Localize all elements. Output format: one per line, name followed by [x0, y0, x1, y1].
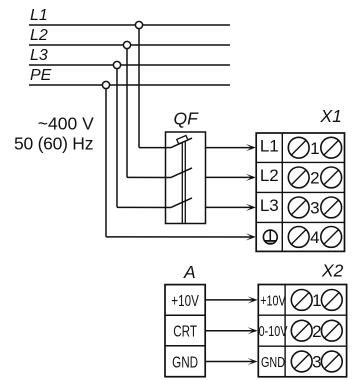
- svg-text:L1: L1: [260, 136, 279, 155]
- svg-text:50 (60) Hz: 50 (60) Hz: [14, 134, 93, 154]
- svg-text:PE: PE: [30, 67, 52, 84]
- svg-text:1: 1: [312, 291, 321, 310]
- svg-text:L2: L2: [260, 166, 279, 185]
- svg-text:4: 4: [310, 228, 319, 247]
- svg-text:1: 1: [310, 139, 319, 158]
- svg-text:L3: L3: [30, 47, 48, 64]
- svg-text:3: 3: [310, 199, 319, 218]
- svg-text:X1: X1: [320, 106, 342, 126]
- svg-text:GND: GND: [261, 353, 285, 370]
- svg-text:QF: QF: [174, 108, 200, 128]
- svg-text:+10V: +10V: [260, 292, 286, 309]
- svg-text:L1: L1: [30, 7, 48, 24]
- svg-text:+10V: +10V: [171, 291, 199, 309]
- svg-text:2: 2: [312, 322, 321, 341]
- svg-text:0-10V: 0-10V: [259, 322, 288, 339]
- svg-text:2: 2: [310, 169, 319, 188]
- svg-text:L3: L3: [260, 196, 279, 215]
- svg-text:3: 3: [312, 353, 321, 372]
- svg-text:GND: GND: [172, 353, 198, 371]
- svg-text:A: A: [183, 262, 196, 282]
- svg-text:~400 V: ~400 V: [38, 113, 94, 133]
- svg-text:CRT: CRT: [173, 322, 197, 340]
- svg-text:L2: L2: [30, 27, 48, 44]
- svg-text:X2: X2: [321, 260, 344, 280]
